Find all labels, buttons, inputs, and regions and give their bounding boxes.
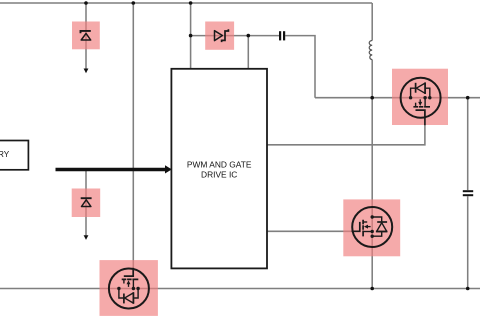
highlight mosfet Q1 [392,69,448,125]
wire output cap upper [467,98,469,190]
thick power arrow shaft [56,168,167,172]
highlight schottky D3 [205,22,234,50]
highlight mosfet Q2 [343,199,400,256]
wire top bus [0,2,372,4]
wire gate of Q2 [267,230,353,232]
node schottky row left [189,34,193,38]
svg-text:PWM AND GATE: PWM AND GATE [187,159,252,169]
arrow terminal below D2 [84,235,89,240]
wire bottom bus [0,288,480,290]
node bottom bus / output cap [466,287,470,291]
mosfet Q2 (synchronous) [352,207,393,247]
wire vertical to schottky node [190,3,192,69]
node top bus / zener [84,1,88,5]
mosfet Q1 gate lead extension [424,117,426,125]
inductor L1 [369,41,372,60]
node switch / output cap [466,96,470,100]
mosfet Q3 (reverse protection) [109,268,149,309]
node top bus / Q3 gate branch [132,1,136,5]
wire diode D2 branch [85,170,87,236]
node schottky row / IC stub [247,34,251,38]
zener diode D1 [81,31,91,40]
wire zener branch [85,3,87,69]
wire output cap lower [467,196,469,288]
arrow terminal below D1 [84,69,89,74]
capacitor C2 [463,191,473,195]
wire gate of Q1 [267,112,425,145]
wire IC pin stub [247,36,249,69]
node bottom bus / Q2 [370,287,374,291]
node top bus / schottky branch [189,1,193,5]
wire inductor branch upper [371,3,373,41]
wire inductor branch lower / Q2 drain-source [371,60,373,289]
highlight diode D2 [72,189,101,218]
wire schottky row left [191,35,279,37]
highlight zener D1 [72,22,100,50]
op-amp/IC box: PWM and gate drive IC U1 [171,69,267,269]
node switch / inductor [370,96,374,100]
schottky diode D3 [215,29,229,42]
mosfet Q1 (high side) [401,78,441,119]
highlight mosfet Q3 [100,260,158,316]
wire switch node horizontal [315,97,480,99]
diode D2 [81,198,92,206]
battery box [0,141,28,170]
svg-text:DRIVE IC: DRIVE IC [201,169,237,179]
capacitor C1 [280,31,284,40]
wire gate branch to Q3 [132,3,134,268]
wire schottky row right of cap C1 [285,36,315,98]
thick power arrow head [165,165,172,173]
svg-text:BATTERY: BATTERY [0,150,10,159]
